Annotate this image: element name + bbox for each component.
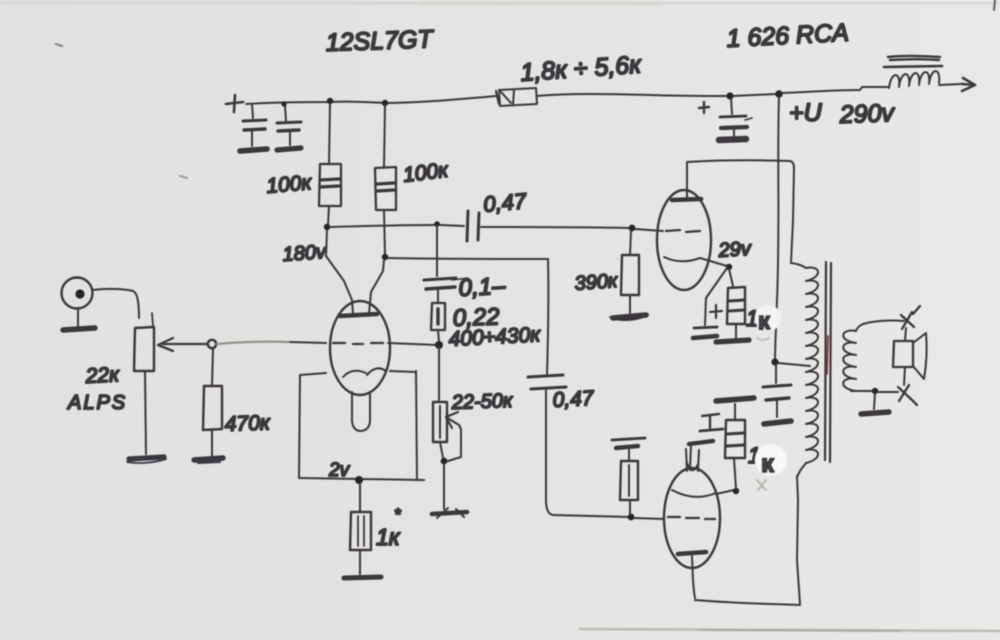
U2 cathode lead bbox=[700, 258, 727, 266]
U3 cathode arc bbox=[672, 490, 716, 497]
B+ filter cap C9 lead bbox=[731, 98, 732, 114]
resistor R8 390k top lead bbox=[630, 231, 631, 255]
svg-text:22к: 22к bbox=[84, 363, 121, 388]
capacitor C4 0.1-0.22 plates bbox=[424, 278, 456, 280]
T1 primary bottom lead bbox=[797, 463, 806, 477]
wire grid node to tube (light stroke) bbox=[217, 342, 290, 344]
wire B+ rail middle bbox=[537, 94, 728, 96]
svg-text:0,47: 0,47 bbox=[482, 188, 528, 217]
svg-text:470к: 470к bbox=[224, 411, 271, 436]
svg-text:100к: 100к bbox=[265, 171, 313, 198]
C7 plates bbox=[700, 429, 723, 431]
U2 anode plate bbox=[672, 199, 701, 200]
wire to speaker bottom terminal bbox=[878, 391, 898, 393]
wire grid into tube bbox=[290, 342, 326, 343]
wire B+ rail left bbox=[246, 96, 497, 104]
svg-text:12SL7GT: 12SL7GT bbox=[325, 25, 435, 57]
wire choke to arrow bbox=[939, 84, 962, 85]
junction dot C4 branch bbox=[434, 221, 440, 227]
svg-text:180v: 180v bbox=[282, 241, 328, 266]
R9 bottom lead bbox=[735, 324, 737, 338]
U3 cathode lead to node bbox=[716, 490, 734, 494]
wire node B to corner bbox=[388, 258, 548, 259]
choke L1 core lines bbox=[888, 56, 940, 60]
junction dot U3 cathode bbox=[733, 488, 739, 494]
ground blob for C9 bbox=[719, 139, 746, 140]
U2 anode lead up bbox=[686, 163, 688, 199]
ground above R10 bbox=[716, 398, 754, 401]
junction dot B+ cap node bbox=[726, 92, 733, 99]
wire to U2 grid bbox=[635, 229, 663, 231]
svg-text:к: к bbox=[758, 308, 771, 335]
U3 anode lead down bbox=[692, 556, 695, 598]
scan artifact: faint top hairline bbox=[2, 2, 998, 4]
resistor R1 1.8k-5.6k in rail bbox=[499, 88, 537, 106]
junction dot cap C2 top bbox=[281, 101, 286, 106]
C8 plates bbox=[763, 385, 791, 387]
junction dot U2 cathode bbox=[726, 264, 732, 270]
ground for R8 bbox=[613, 315, 646, 318]
tube U3 1626 envelope bbox=[664, 468, 720, 568]
T1 secondary top lead to speaker bbox=[863, 320, 904, 324]
svg-text:29v: 29v bbox=[717, 238, 753, 262]
svg-text:к: к bbox=[761, 448, 775, 478]
wire into triode anode funnel left bbox=[326, 230, 353, 314]
cap C9 plates bbox=[720, 116, 746, 117]
cathode wiring box right side bbox=[416, 371, 417, 480]
R6 bottom lead bbox=[440, 442, 443, 458]
capacitor C3 0.47 plates bbox=[467, 211, 479, 241]
speaker terminal X top bbox=[901, 306, 920, 329]
input jack J1 center pin bbox=[75, 289, 84, 298]
ground for R7 bbox=[344, 577, 381, 578]
wire jack to pot bbox=[92, 289, 139, 318]
T1 secondary bottom lead bbox=[851, 390, 872, 392]
U3 cathode fork bbox=[686, 449, 699, 471]
ground lead speaker bbox=[874, 393, 875, 409]
tube U2 1626 envelope bbox=[657, 190, 711, 290]
paper speck 1 bbox=[56, 44, 62, 46]
C4 to R5 lead bbox=[437, 289, 439, 303]
C6 plus sign bbox=[710, 305, 722, 318]
wire C5 down to bottom grid bbox=[546, 390, 630, 517]
svg-text:390к: 390к bbox=[574, 270, 620, 295]
resistor R9 1k cathode body bbox=[729, 269, 733, 286]
arrow head B+ out bbox=[962, 78, 975, 91]
T1 core lines bbox=[825, 262, 831, 462]
svg-text:400÷430к: 400÷430к bbox=[448, 323, 542, 351]
cathode wiring box bottom bbox=[299, 478, 424, 480]
transformer T1 primary winding bbox=[791, 263, 818, 463]
R11 top lead bbox=[628, 450, 630, 461]
resistor R4 470k top lead bbox=[212, 348, 213, 386]
capacitor C5 0.47 plates bbox=[528, 375, 563, 377]
resistor R7 1k* top lead bbox=[359, 484, 361, 512]
cathode wiring box right stub bbox=[390, 371, 416, 372]
C7 link to cathode fork bbox=[690, 445, 691, 470]
junction dot left 100k top bbox=[327, 98, 333, 104]
resistor R2 100k left lead bbox=[329, 103, 330, 164]
U1 cathode arc 2 bbox=[367, 368, 386, 375]
speaker LS1 body bbox=[893, 341, 913, 367]
resistor R11 body bbox=[620, 461, 638, 500]
resistor R11 bottom grid leak lead bbox=[629, 500, 631, 515]
cathode wiring box left side bbox=[299, 375, 300, 478]
wire U3 anode to transformer bottom bbox=[695, 600, 800, 605]
U1 heater loop bbox=[352, 392, 370, 431]
junction dot node B bbox=[382, 254, 388, 260]
ground for jack bbox=[63, 328, 95, 330]
cap C8 tap bypass lead bbox=[775, 365, 777, 383]
jack stem bbox=[77, 308, 79, 326]
svg-text:22-50к: 22-50к bbox=[450, 390, 514, 414]
input jack J1 outer bbox=[62, 278, 93, 309]
pot wiper arrow bbox=[158, 338, 208, 351]
filter cap C2 bbox=[285, 105, 286, 121]
U2 grid dashes bbox=[666, 230, 700, 232]
grid dashes U1 bbox=[333, 343, 383, 344]
wire tap to primary bbox=[778, 363, 810, 366]
resistor R2 bottom lead bbox=[328, 206, 329, 225]
U1 anode plate bbox=[340, 314, 377, 316]
svg-text:+U: +U bbox=[789, 99, 823, 127]
U1 cathode arc 1 bbox=[343, 371, 366, 377]
resistor R3 100k right lead bbox=[384, 105, 385, 168]
svg-text:ALPS: ALPS bbox=[67, 392, 127, 414]
wire corner down to C5 bbox=[547, 259, 548, 374]
plus sign at filter caps bbox=[226, 95, 243, 112]
speaker top lead bbox=[905, 328, 906, 341]
capacitor C4 branch lead bbox=[436, 226, 438, 276]
potentiometer P1 22k body bbox=[134, 327, 154, 371]
svg-text:290v: 290v bbox=[838, 99, 896, 129]
U2 cathode arc bbox=[664, 257, 700, 261]
junction dot cathode node 2v bbox=[355, 476, 363, 484]
C8 lower lead bbox=[776, 400, 778, 417]
U3 anode plate bbox=[678, 552, 706, 554]
ground for R9 bbox=[716, 340, 749, 342]
R8 bottom lead bbox=[629, 295, 631, 313]
resistor R6 22-50k top lead bbox=[438, 347, 440, 400]
ground for C8 bbox=[764, 421, 791, 424]
pot bottom lead bbox=[145, 371, 146, 454]
wire to ground bbox=[443, 464, 445, 509]
B+ wire down to tap bbox=[775, 97, 779, 360]
cap C6 cathode bypass lead bbox=[705, 268, 727, 325]
C6 plates bbox=[694, 327, 717, 328]
ground for C1 bbox=[240, 149, 267, 151]
resistor R8 390k body bbox=[621, 255, 639, 295]
wire into triode anode funnel right bbox=[369, 260, 384, 314]
wire U2 anode to transformer bbox=[687, 160, 794, 263]
svg-text:0,1–: 0,1– bbox=[458, 273, 507, 302]
ground for pot bbox=[129, 457, 164, 459]
junction dot R6 bottom bbox=[441, 458, 448, 465]
resistor R5 400-430k body bbox=[431, 303, 445, 330]
junction dot speaker ground node bbox=[872, 388, 878, 394]
junction dot 390k node bbox=[629, 225, 636, 232]
resistor R7 bottom lead bbox=[359, 550, 361, 574]
speaker terminal X bottom bbox=[898, 385, 917, 405]
ground for speaker bbox=[861, 412, 889, 414]
junction dot +U node bbox=[775, 90, 783, 98]
svg-text:1к: 1к bbox=[376, 524, 401, 550]
speaker bottom lead bbox=[904, 367, 905, 385]
plus sign at C9 bbox=[699, 102, 709, 113]
wire C3 to 390k node bbox=[481, 227, 630, 228]
resistor R2 100k left body bbox=[319, 164, 341, 206]
resistor R4 470k body bbox=[203, 386, 222, 430]
resistor R7 1k* body bbox=[350, 512, 371, 550]
ground for R6 bbox=[432, 512, 467, 514]
junction dot bottom grid node bbox=[628, 514, 635, 521]
resistor R3 100k right body bbox=[375, 167, 396, 210]
wire to U3 grid bbox=[634, 518, 664, 519]
speaker LS1 cone bbox=[913, 333, 927, 379]
junction dot grid-R5 node bbox=[435, 341, 443, 349]
R6 wiper arrow bbox=[446, 412, 459, 428]
grid dashes U3 bbox=[668, 517, 715, 519]
T1 secondary winding bbox=[843, 324, 863, 391]
junction dot coupling node A bbox=[324, 224, 330, 230]
ground for C2 bbox=[277, 148, 301, 150]
ground above R11 bbox=[612, 438, 645, 440]
svg-text:2v: 2v bbox=[328, 460, 351, 481]
wire to cap C3 bbox=[440, 225, 464, 226]
cap C7 bypass top tee bbox=[702, 414, 719, 428]
T1 core red mark bbox=[827, 336, 828, 374]
scan artifact: bottom gray line bbox=[580, 629, 1000, 631]
junction dot right 100k top bbox=[382, 100, 388, 106]
tube U1 12SL7GT envelope bbox=[330, 301, 390, 395]
cathode wiring box left stub bbox=[300, 373, 326, 375]
ground for R4 bbox=[194, 458, 223, 460]
wire rail to choke bbox=[782, 87, 889, 93]
resistor R10 1k lead bbox=[734, 458, 736, 489]
junction dot transformer tap bbox=[771, 358, 778, 365]
filter cap C1 bbox=[252, 104, 253, 118]
junction ring grid node bbox=[208, 340, 216, 348]
resistor R3 bottom lead bbox=[384, 210, 385, 255]
wire rail to +U node bbox=[733, 94, 776, 96]
scan artifact: right edge tick bbox=[994, 0, 995, 10]
resistor R10 1k body bbox=[725, 420, 745, 458]
resistor R6 22-50k body bbox=[433, 402, 447, 442]
R6 wiper to bottom wire bbox=[448, 425, 461, 461]
paper speck 2 bbox=[180, 176, 187, 178]
svg-text:0,47: 0,47 bbox=[552, 387, 595, 412]
R5 bottom lead bbox=[438, 330, 439, 342]
R10 top lead bbox=[734, 404, 736, 420]
wire up to primary bottom bbox=[797, 476, 800, 604]
resistor R4 bottom lead bbox=[211, 430, 213, 456]
wire coupling node A to cap C3 bbox=[330, 225, 437, 227]
wire grid right of tube bbox=[388, 343, 437, 345]
choke L1 winding bbox=[889, 71, 939, 88]
